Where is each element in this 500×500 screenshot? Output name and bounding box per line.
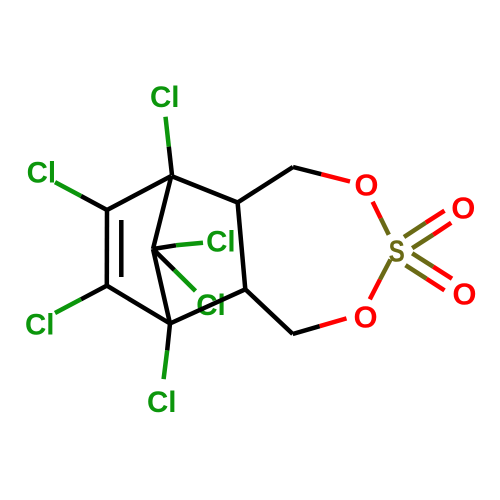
bond C7-Cl mid-lower black half [153, 249, 174, 270]
bond C1-Cl top black half [169, 147, 172, 175]
bond C5-C8 [238, 167, 293, 203]
bond C5-C6 [238, 203, 246, 290]
bond C3-Cl lowerleft black half [81, 286, 107, 300]
bond C7-Cl mid-lower green half [174, 270, 195, 291]
bond C3-C4 [107, 286, 170, 324]
svg-text:Cl: Cl [206, 225, 236, 258]
bond O2-C9 black half [293, 326, 320, 334]
svg-text:Cl: Cl [27, 157, 56, 190]
bond C7-C4 bridge [153, 249, 170, 324]
bond C2=C3 main [105, 210, 110, 286]
bond C1-C7 bridge [153, 176, 171, 249]
bond C4-Cl bottom black half [167, 324, 170, 351]
bond C1-Cl top green half [166, 117, 169, 147]
bond C7-Cl mid-upper green half [176, 243, 203, 246]
bond S=O3 line2 red [433, 223, 451, 235]
svg-text:O: O [451, 190, 475, 225]
bond C2-Cl upperleft green half [55, 182, 81, 196]
svg-text:O: O [354, 167, 378, 202]
bond C2-Cl upperleft black half [81, 196, 107, 210]
bond S-O2 olive half [380, 260, 391, 280]
bond C4-Cl bottom green half [164, 350, 168, 379]
svg-text:Cl: Cl [147, 386, 177, 419]
bond S=O4 line1 olive [412, 253, 433, 266]
bond S-O2 red half [370, 280, 380, 300]
bond C3-Cl lowerleft green half [55, 299, 81, 313]
svg-text:O: O [354, 300, 378, 335]
bond S=O4 line1 red [433, 267, 452, 279]
svg-text:Cl: Cl [25, 308, 55, 341]
bond O2-C9 red half [320, 318, 347, 326]
bond S=O4 line2 olive [406, 265, 427, 279]
bond O1-S olive half [381, 218, 389, 235]
bond C6-C9 [245, 289, 292, 334]
bond C2=C3 inner [119, 220, 124, 277]
svg-text:O: O [452, 277, 476, 312]
bond C8-O1 black half [293, 167, 321, 174]
bond C7-Cl mid-upper black half [153, 245, 176, 249]
bond S=O4 line2 red [427, 279, 445, 291]
svg-text:Cl: Cl [150, 81, 180, 114]
bond C4-C6 [170, 289, 245, 323]
bond S=O3 line1 red [426, 211, 445, 223]
bond O1-S red half [373, 202, 381, 219]
bond S=O3 line1 olive [404, 223, 426, 237]
bond S=O3 line2 olive [412, 235, 433, 249]
bond C1-C2 [107, 176, 171, 210]
bond C1-C5 [171, 176, 237, 203]
bond C8-O1 red half [321, 174, 350, 181]
svg-text:S: S [389, 234, 405, 269]
